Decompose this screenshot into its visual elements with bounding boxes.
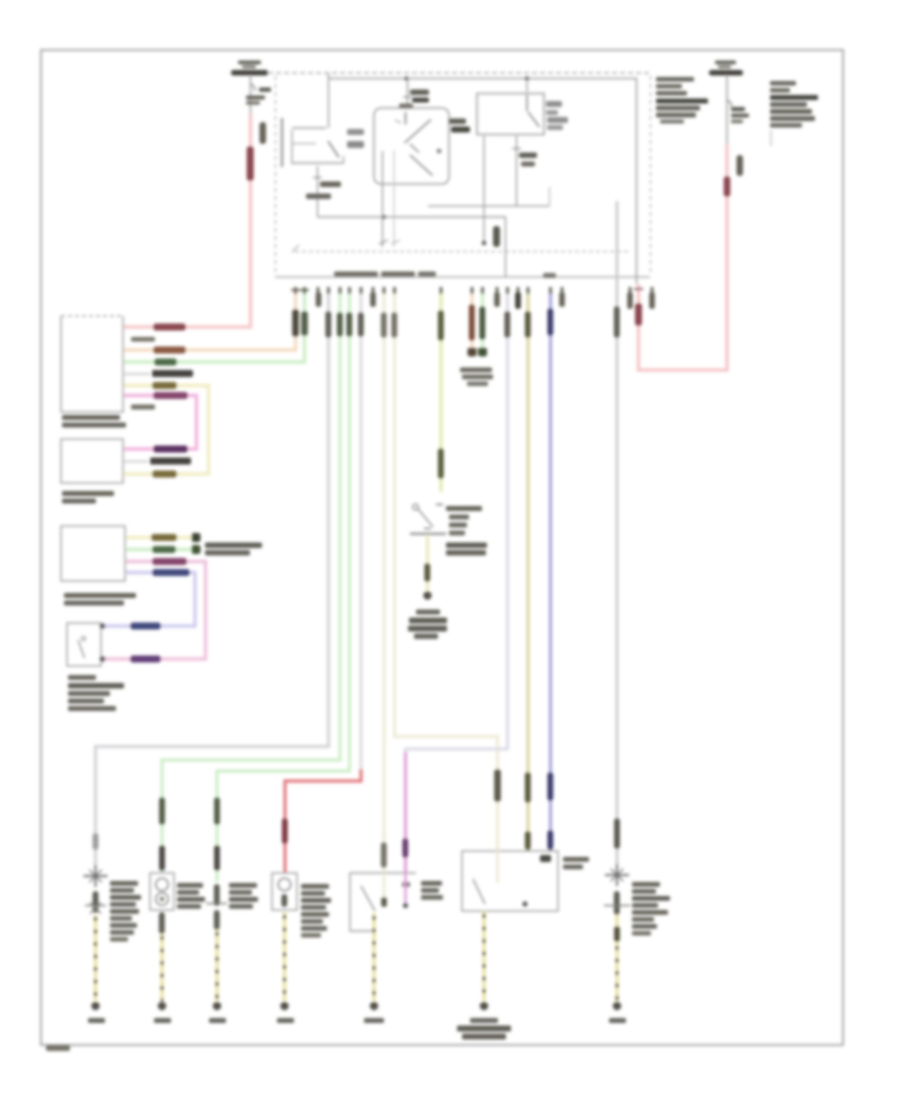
stub pin 318	[316, 292, 322, 307]
wire: module C pin1 yellow stub with splice dot	[126, 533, 201, 542]
EIS outer dashed box right edge	[650, 76, 652, 274]
wire: module C pin3 pink to module D pin2	[104, 558, 206, 663]
wire: horizontal link y206	[428, 187, 550, 206]
wire: olive run to lamp F box	[525, 294, 531, 851]
key-in switch S2 labels	[446, 506, 487, 556]
module A pin1 text	[131, 337, 155, 342]
module A pin4 text (WHT/BLK)	[124, 370, 193, 377]
module C box (headlamp switch)	[61, 526, 125, 581]
module B box (rain sensor)	[61, 439, 123, 483]
lamp A label	[110, 881, 141, 942]
module C label	[64, 593, 136, 606]
wire: cream run to switch E	[381, 294, 387, 873]
text: splice destination note	[205, 543, 262, 556]
wire: module A pin2 orange (ORN)	[124, 288, 296, 354]
relay K1 pin labels	[347, 129, 364, 148]
lamp F label	[563, 857, 589, 869]
wire: relay K2 pin 516 with connector	[512, 136, 537, 206]
ignition switch right pin labels	[449, 119, 470, 133]
wire: pale run turning red to lamp D	[282, 294, 364, 873]
wire label RED on horizontal run	[153, 324, 186, 331]
switch E contacts	[381, 873, 408, 908]
wire: red feed from fuse F1 to module A (RED)	[124, 114, 251, 327]
EIS outer box bottom edge	[275, 276, 650, 278]
wire: green stub to splice dot	[478, 294, 487, 357]
ground G4 label	[408, 610, 447, 640]
wire: bus drop to relay K1	[328, 73, 330, 128]
text: splice destination note center	[460, 368, 493, 387]
connector code capsule right of F1 drop	[260, 122, 267, 144]
ground G7 dot and label	[457, 1002, 511, 1040]
wire: cream run to lamp F box	[391, 294, 500, 851]
lamp C label	[229, 883, 258, 909]
wire: yellow-green drop to key switch S2	[438, 294, 444, 492]
ground G8 dot	[609, 1002, 626, 1023]
wire: blue-violet run to lamp F box	[547, 294, 553, 851]
fuse F1 label	[238, 61, 261, 69]
lamp G label	[632, 882, 670, 936]
ground G1 dot	[88, 1002, 105, 1023]
wire: relay K1 output to bottom connector	[306, 166, 341, 217]
stub pin 630	[627, 292, 633, 309]
ground G5 dot	[277, 1002, 294, 1023]
wire label RED vertical on F2 drop	[724, 176, 731, 197]
wire: bus drop to relay K2	[526, 79, 528, 93]
module B label	[62, 491, 114, 504]
relay K1 contact frame	[292, 128, 344, 163]
EIS inner dashed line	[292, 245, 630, 252]
ignition switch S1 body	[374, 108, 449, 184]
module D switch lever	[78, 637, 86, 659]
ignition switch top pin connector	[399, 78, 429, 108]
page number label bottom-left	[46, 1045, 70, 1051]
wire: module A pin5 yellow to module B (YEL)	[124, 382, 209, 478]
lamp G lower connector capsule	[604, 891, 630, 915]
wire: lamp B ground lead	[159, 912, 165, 1001]
wire: module C pin4 lavender to module D pin1	[104, 569, 195, 630]
relay K2 contact	[527, 95, 540, 127]
stub pin 562	[559, 292, 565, 307]
connector code capsule near 496	[493, 226, 500, 247]
wire: green run to lamp B	[159, 294, 343, 873]
lamp B label	[177, 883, 205, 909]
wire: module A pin6 magenta to module B (PNK)	[124, 392, 197, 453]
EIS box name text	[334, 272, 556, 279]
wire: key switch ground lead	[424, 536, 430, 591]
switch E housing	[350, 873, 416, 931]
wire: ignition switch bottom pin to connector	[379, 151, 388, 247]
fuse F2 label	[715, 61, 736, 69]
lamp B housing	[150, 873, 174, 910]
wire: horizontal link y217 to connector at 505	[318, 215, 506, 277]
text block: EIS connector description (right of box)	[656, 77, 708, 124]
fuse F2 symbol	[709, 70, 743, 76]
wire: orange stub to splice dot	[468, 294, 477, 357]
wire: fuse F1 drop with connector	[246, 75, 271, 116]
EIS outer dashed box left edge	[275, 76, 277, 272]
connector code capsule right of F2 drop	[737, 155, 744, 176]
wire: red feed from fuse F2 down-left into EIS	[639, 144, 728, 370]
wire: top distribution line y78	[329, 77, 637, 285]
wire: green run to lamp C	[214, 294, 352, 882]
ground G2 dot	[154, 1002, 171, 1023]
relay K1 coil bar	[282, 118, 292, 167]
wire: module C pin2 green stub with splice dot	[126, 545, 201, 554]
wire: switch E ground lead	[372, 913, 375, 1001]
lamp A bulb symbol	[84, 865, 108, 887]
text block: right power distribution description	[770, 81, 818, 146]
switch E label	[421, 881, 443, 900]
ground G3 dot	[209, 1002, 226, 1023]
lamp D housing	[272, 873, 297, 910]
relay K2 body	[477, 94, 544, 135]
wire: lamp D ground lead	[283, 912, 286, 1001]
stub pin 497	[494, 292, 500, 307]
wire: lamp A ground lead (BLK/YEL)	[94, 915, 97, 1001]
lamp A lower connector capsule	[85, 891, 106, 914]
wire label RED vertical on 638 riser	[634, 289, 643, 326]
lamp G bulb symbol	[605, 864, 629, 886]
wire label on green riser	[300, 290, 309, 336]
wire: gray run to lamp A	[93, 294, 332, 868]
wire: relay K2 pin 484 to inner dashed connector	[482, 136, 487, 245]
lamp F housing	[462, 851, 558, 911]
wire: lamp C ground lead	[214, 910, 220, 1001]
relay K2 pin labels	[546, 101, 568, 130]
wire label on orange riser	[291, 290, 300, 337]
connector pin ticks below EIS box	[294, 287, 654, 294]
ignition switch S1 contacts	[395, 112, 441, 176]
wire label RED vertical on F1 drop	[247, 146, 254, 181]
dashed bus line (top edge of EIS box)	[268, 72, 650, 74]
stub pin 373	[370, 292, 376, 307]
ground splice dot G4	[423, 591, 431, 599]
wire: module A pin3 green (GRN)	[124, 288, 305, 366]
module A pin7 text	[131, 405, 155, 410]
module D box (switch)	[67, 623, 101, 666]
wire: gray run to lamp G	[614, 201, 620, 866]
module A box (wiper control module)	[61, 316, 123, 412]
wire: lamp G ground lead	[614, 915, 620, 1001]
stub pin 652	[649, 292, 655, 309]
stub pin 518	[515, 292, 521, 309]
lamp C connector capsule	[206, 884, 227, 906]
module D label	[68, 675, 124, 711]
module A label	[62, 415, 126, 428]
key-in switch S2	[410, 504, 446, 534]
wire: ignition switch second bottom pin	[391, 150, 400, 247]
wire: fuse F2 drop with connector	[727, 75, 749, 146]
wire: pale lavender run turning orchid to switch E	[402, 294, 510, 873]
lamp D label	[301, 884, 331, 938]
module B pin2 text (WHT/BLK)	[124, 458, 191, 465]
module D pin dots	[100, 623, 106, 662]
fuse F1 symbol	[231, 70, 268, 76]
ground G6 dot	[364, 1002, 384, 1023]
wire: lamp F ground lead	[482, 911, 485, 1001]
